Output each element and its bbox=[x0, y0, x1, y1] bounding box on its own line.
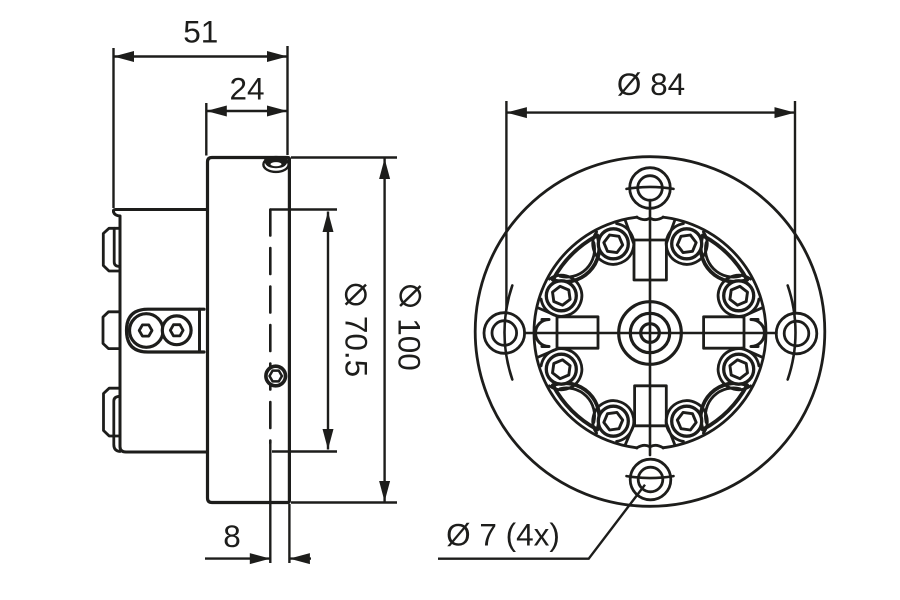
bolt 157.5 bbox=[672, 406, 702, 436]
pocket arc bolt 292.5 bbox=[541, 275, 582, 316]
crescent NW inner bbox=[560, 243, 594, 277]
rect W bbox=[557, 317, 598, 348]
dim line 8 left part bbox=[205, 557, 270, 559]
arrow 24 right bbox=[267, 106, 288, 117]
svg-text:Ø 7 (4x): Ø 7 (4x) bbox=[446, 517, 560, 553]
inner body circle bbox=[534, 217, 766, 449]
dim line dia100 bbox=[383, 159, 385, 502]
body outline bbox=[114, 210, 207, 453]
pocket arc bolt 247.5 bbox=[541, 349, 582, 390]
dim text dia100 (rotated) bbox=[392, 286, 428, 371]
ext line 8 right (flange edge extended) bbox=[288, 504, 290, 563]
ext line 51 left bbox=[112, 48, 114, 208]
pocket arc bolt 22.5 bbox=[666, 224, 707, 265]
outer flange circle bbox=[475, 157, 825, 507]
crescent SE inner bbox=[705, 388, 739, 422]
arrow dia100 top bbox=[379, 159, 390, 180]
hidden dashed line (body dia behind flange) bbox=[269, 210, 272, 444]
arrow 8 left bbox=[250, 553, 270, 564]
connector hex small bbox=[170, 325, 183, 336]
dim line dia84 bbox=[506, 111, 795, 113]
crescent NW bbox=[553, 235, 599, 281]
crescent SW inner bbox=[560, 388, 594, 422]
arrow dia70.5 top bbox=[323, 212, 334, 233]
bolt-circle arc left ear bbox=[504, 286, 512, 380]
tab top bbox=[103, 228, 120, 271]
svg-text:51: 51 bbox=[183, 14, 218, 50]
pocket arc bolt 67.5 bbox=[718, 275, 759, 316]
dim line dia70.5 bbox=[327, 212, 329, 450]
ear top bbox=[630, 168, 671, 209]
crescent NE bbox=[701, 235, 747, 281]
ext line dia70.5 top bbox=[270, 208, 337, 210]
ext line dia100 top bbox=[291, 156, 397, 158]
arrow dia100 bottom bbox=[379, 481, 390, 502]
ext line dia84 left bbox=[505, 101, 507, 310]
notch tongue W bbox=[536, 320, 550, 347]
svg-text:24: 24 bbox=[229, 71, 264, 107]
bolt 112.5 bbox=[724, 354, 754, 384]
dim line 24 bbox=[206, 110, 287, 112]
dim line 8 right part bbox=[289, 557, 311, 559]
bolt 292.5 bbox=[546, 281, 576, 311]
tab bottom bbox=[104, 388, 121, 436]
notch top (wavy) bbox=[637, 217, 664, 220]
svg-text:70.5: 70.5 bbox=[339, 316, 375, 377]
pocket arc bolt 157.5 bbox=[666, 401, 707, 442]
svg-text:Ø 84: Ø 84 bbox=[617, 66, 685, 102]
ext line dia84 right bbox=[794, 101, 796, 312]
connector inner edge bbox=[198, 309, 201, 352]
crescent SE bbox=[701, 383, 747, 429]
svg-text:8: 8 bbox=[223, 518, 241, 554]
bolt 337.5 bbox=[598, 229, 628, 259]
connector housing bbox=[127, 309, 205, 352]
flange top nipple (black) bbox=[264, 159, 288, 168]
tab bottom inner line bbox=[114, 396, 120, 451]
bolt-circle arc bottom ear bbox=[627, 476, 674, 478]
center circle middle bbox=[630, 313, 669, 352]
pocket arc bolt 112.5 bbox=[718, 349, 759, 390]
connector hex big bbox=[139, 325, 152, 336]
pocket arc bolt 337.5 bbox=[593, 224, 634, 265]
arrow dia84 left bbox=[506, 107, 527, 118]
arrow 24 left bbox=[206, 106, 227, 117]
connector circle small bbox=[162, 316, 191, 345]
connector circle big bbox=[130, 314, 164, 348]
ext line 24 left bbox=[205, 103, 207, 156]
bolt 67.5 bbox=[724, 281, 754, 311]
tab top inner line bbox=[114, 228, 120, 266]
grease screw on flange bbox=[266, 366, 286, 386]
crescent NE inner bbox=[705, 243, 739, 277]
bolt-circle arc top ear bbox=[627, 187, 674, 189]
tab middle bbox=[103, 312, 120, 349]
notch mask top bbox=[638, 212, 662, 222]
pocket arc bolt 202.5 bbox=[593, 401, 634, 442]
flange top nipple white slot bbox=[271, 162, 282, 166]
arrow 51 right bbox=[267, 51, 288, 62]
rect N bbox=[634, 240, 666, 280]
arrow dia84 right bbox=[775, 107, 796, 118]
ext line dia100 bottom bbox=[291, 501, 397, 503]
flange plate bbox=[208, 158, 290, 503]
dim text dia70.5 (rotated) bbox=[339, 285, 375, 378]
ext line 8 left (below flange) bbox=[269, 443, 271, 563]
center circle inner bbox=[641, 324, 660, 343]
svg-text:100: 100 bbox=[392, 318, 428, 371]
ext line dia70.5 bottom bbox=[272, 450, 337, 452]
arrow 51 left bbox=[114, 51, 135, 62]
bolt 202.5 bbox=[598, 406, 628, 436]
bolt 247.5 bbox=[546, 354, 576, 384]
center circle outer bbox=[619, 302, 682, 365]
arrow dia70.5 bottom bbox=[323, 429, 334, 450]
ear left bbox=[484, 313, 525, 354]
vertical centerline bbox=[649, 200, 652, 455]
notch mask bottom bbox=[638, 443, 662, 453]
ear right bbox=[776, 313, 817, 354]
horizontal centerline bbox=[525, 332, 777, 335]
bolt-circle arc right ear bbox=[788, 286, 796, 380]
ext line 51/24 right bbox=[286, 46, 288, 155]
rect S bbox=[635, 386, 667, 426]
notch bottom (wavy) bbox=[637, 445, 664, 448]
bolt 22.5 bbox=[672, 229, 702, 259]
flange top nipple outline bbox=[263, 157, 288, 172]
ear bottom bbox=[630, 459, 671, 500]
arrow 8 right bbox=[289, 553, 310, 564]
crescent SW bbox=[553, 383, 599, 429]
dim line 51 bbox=[114, 55, 288, 57]
grease screw hex bbox=[270, 371, 282, 382]
leader line dia7 bbox=[438, 485, 645, 559]
notch tongue E bbox=[751, 320, 765, 347]
radial sector lines bbox=[537, 220, 763, 446]
rect E bbox=[704, 317, 744, 348]
